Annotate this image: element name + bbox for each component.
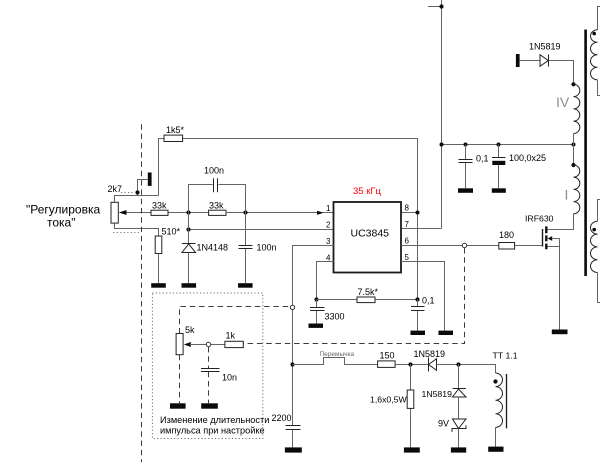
potentiometer 5k xyxy=(176,334,183,355)
svg-text:0,1: 0,1 xyxy=(476,154,489,164)
node: bus-rail junction xyxy=(440,143,444,147)
transistor IRF630 gate bar xyxy=(542,229,544,247)
capacitor 0,1 on bus xyxy=(465,145,467,189)
wire: pin6 row to gate xyxy=(401,245,543,247)
ground: below 3300 xyxy=(309,324,324,328)
node: pin8 junction xyxy=(416,211,420,215)
ground: below 1N4148 xyxy=(182,283,197,288)
node: zener branch junction xyxy=(456,362,460,366)
diode 1N5819 top xyxy=(548,55,550,67)
arrow: IRF630 substrate xyxy=(548,236,553,241)
wire: pin4 to 7.5k node xyxy=(317,262,334,300)
ground: 10n xyxy=(201,403,218,408)
arrow into pin 1 xyxy=(317,211,324,215)
wire: 150 to diode xyxy=(395,364,428,366)
wire: supply stub left xyxy=(428,6,442,8)
resistor 1,6x0,5W xyxy=(410,365,412,448)
capacitor 3300 xyxy=(316,300,318,324)
wire: 1k5 right lead xyxy=(183,138,418,140)
svg-text:510*: 510* xyxy=(162,227,181,237)
svg-text:1: 1 xyxy=(326,204,331,213)
svg-text:IV: IV xyxy=(556,94,570,110)
ground: IRF630 source xyxy=(552,330,568,335)
wire: dotted segment below pot xyxy=(113,232,139,234)
wire: dashed adjust link xyxy=(243,248,464,344)
svg-text:0,1: 0,1 xyxy=(422,296,435,306)
core: TT 1.1 xyxy=(506,374,508,429)
wire: 1N4148 to ground xyxy=(188,253,190,284)
wire: jumper bump Перемычка xyxy=(293,358,378,365)
dotted box: tuning note xyxy=(152,293,262,439)
wire: diode to winding IV xyxy=(549,61,574,85)
wire: pin5 to ground xyxy=(401,262,445,331)
wire: 1k5 left lead down to pot top row xyxy=(159,139,165,196)
wire: Vref vertical x418 from 1k5 to 7.5k node xyxy=(417,139,419,300)
svg-text:180: 180 xyxy=(499,230,514,240)
potentiometer 2k7 xyxy=(111,202,118,223)
winding II secondary top xyxy=(598,7,600,30)
svg-text:1N5819: 1N5819 xyxy=(414,349,446,359)
wire: between diodes xyxy=(458,397,460,419)
wire: 5k bottom dashed to ground xyxy=(179,355,181,404)
winding IV of transformer xyxy=(571,82,575,86)
ground: below 100n xyxy=(238,283,253,288)
svg-text:9V: 9V xyxy=(438,419,449,429)
ground: bus 100,0 xyxy=(492,188,506,193)
node: bus winding junction xyxy=(572,143,576,147)
capacitor 100n second xyxy=(245,213,247,284)
winding III secondary bottom xyxy=(598,200,600,222)
svg-text:33k: 33k xyxy=(152,201,167,211)
dashed tuning boundary line xyxy=(141,124,143,462)
svg-text:3: 3 xyxy=(326,237,331,246)
resistor 1k5* xyxy=(164,135,183,141)
wire: pin7 to supply rail xyxy=(401,228,442,230)
svg-text:100n: 100n xyxy=(257,243,277,253)
svg-text:IRF630: IRF630 xyxy=(525,213,554,223)
wire: 7.5k row xyxy=(317,299,418,301)
svg-text:Изменение длительности: Изменение длительности xyxy=(160,415,269,425)
ground: 1,6x0,5W xyxy=(404,447,420,452)
svg-text:I: I xyxy=(565,187,569,203)
svg-text:1k5*: 1k5* xyxy=(166,125,185,135)
svg-text:1N5819: 1N5819 xyxy=(422,389,453,399)
wiper arrow of 5k xyxy=(184,342,191,347)
wire: 5k top dashed to pin3 rail xyxy=(180,307,291,334)
wire: 510 lead to ground xyxy=(158,254,160,284)
svg-text:UC3845: UC3845 xyxy=(351,228,390,240)
wire: pin2 row xyxy=(189,229,334,231)
capacitor 0,1 at pin4 node xyxy=(417,300,419,331)
svg-text:2200: 2200 xyxy=(272,413,292,423)
node: open circle on pin6 wire xyxy=(462,243,466,247)
wire: zener to ground xyxy=(458,429,460,448)
resistor 1k xyxy=(225,341,243,347)
resistor 180 xyxy=(499,243,515,250)
svg-text:Перемычка: Перемычка xyxy=(320,351,355,358)
svg-text:5k: 5k xyxy=(185,325,195,335)
svg-text:2k7: 2k7 xyxy=(108,184,123,194)
node: 33k-1 junction xyxy=(186,210,190,214)
svg-text:"Регулировка: "Регулировка xyxy=(26,203,100,217)
resistor 33k second xyxy=(209,210,226,215)
capacitor 100,0x25 electrolytic xyxy=(498,145,500,189)
svg-text:тока": тока" xyxy=(47,216,75,230)
ground: zener xyxy=(451,447,466,452)
svg-text:100,0х25: 100,0х25 xyxy=(509,153,546,163)
wire: circle to 1k xyxy=(211,344,225,346)
wire: 2200 to ground xyxy=(292,430,294,448)
svg-text:6: 6 xyxy=(405,237,410,246)
capacitor 2200 xyxy=(286,426,301,430)
svg-text:1N5819: 1N5819 xyxy=(529,42,561,52)
connector bar at 1N5819 xyxy=(516,54,520,67)
wire: vertical to 1N4148 xyxy=(188,213,190,244)
node: pin4/7.5k junction xyxy=(314,297,318,301)
node: 150/1,6 junction xyxy=(408,362,412,366)
node: 33k-2 junction xyxy=(243,210,247,214)
wire: dotted segment at 2k7 xyxy=(121,192,135,194)
node: 2k7 dotted junction xyxy=(135,190,139,194)
svg-text:ТТ 1.1: ТТ 1.1 xyxy=(493,351,518,361)
wire: 33k-2 to pin1 xyxy=(226,212,317,214)
svg-text:8: 8 xyxy=(405,204,410,213)
diode zener 9V xyxy=(453,419,467,429)
transformer core xyxy=(584,30,587,277)
ground: TT 1.1 xyxy=(488,447,503,452)
wire: supply bus to transformer xyxy=(442,144,574,146)
capacitor 10n dashed leads xyxy=(208,347,210,403)
wire: drain to winding I xyxy=(547,214,573,230)
wire: diode to TT winding xyxy=(437,365,496,374)
transistor IRF630 channel segments xyxy=(545,226,547,249)
connector bar near 1k5 xyxy=(148,173,152,186)
svg-text:33k: 33k xyxy=(209,201,224,211)
ground: below 0,1 xyxy=(411,331,426,335)
ground: below 510 xyxy=(151,283,166,288)
wire: +U supply rail vertical xyxy=(441,0,443,229)
svg-text:1,6х0,5W: 1,6х0,5W xyxy=(370,395,407,405)
node: supply junction xyxy=(439,4,443,8)
diode 1N5819 vertical xyxy=(458,365,460,389)
wire: source to ground xyxy=(547,239,559,330)
node: open circle on pin3 rail xyxy=(290,305,294,309)
ground: 2200 xyxy=(285,447,302,452)
node: pin2 row junction xyxy=(186,227,190,231)
svg-text:4: 4 xyxy=(326,253,331,262)
diode 1N4148 xyxy=(182,243,196,245)
node: bus cap 0,1 junction xyxy=(464,143,468,147)
resistor 33k first xyxy=(151,210,168,215)
diode 1N5819 row (cathode left) xyxy=(428,358,430,372)
wire: TT to ground xyxy=(495,427,497,446)
svg-text:35 кГц: 35 кГц xyxy=(353,186,382,197)
svg-text:7: 7 xyxy=(405,220,410,229)
svg-text:импульса при настройке: импульса при настройке xyxy=(160,426,265,436)
svg-text:7.5k*: 7.5k* xyxy=(358,287,379,297)
svg-text:1N4148: 1N4148 xyxy=(197,243,229,253)
wire: connector bar to 2k7 node xyxy=(138,180,148,196)
svg-text:10n: 10n xyxy=(222,373,237,383)
ground: bus 0,1 xyxy=(458,188,473,193)
wire: pot top row xyxy=(115,196,159,203)
ground: pin5 xyxy=(439,331,454,335)
svg-text:5: 5 xyxy=(405,253,410,262)
node: jumper row junction on pin3 rail xyxy=(290,362,294,366)
resistor 510* xyxy=(155,236,162,254)
resistor 150 xyxy=(378,361,396,368)
wire: pin3 rail down to 2200 xyxy=(293,246,334,426)
svg-text:1k: 1k xyxy=(226,331,236,341)
wire: pot bottom to 510 xyxy=(115,223,159,236)
resistor 7.5k* xyxy=(357,297,375,303)
svg-text:3300: 3300 xyxy=(325,312,345,322)
svg-text:2: 2 xyxy=(326,221,331,230)
wiper arrow of 2k7 pot xyxy=(126,212,151,214)
node: open circle at 1k/10n xyxy=(206,342,210,346)
svg-text:100n: 100n xyxy=(204,166,224,176)
node: 7.5k right junction xyxy=(415,297,419,301)
wire: bar to diode xyxy=(520,60,540,62)
wire: wiper row to 33k xyxy=(168,212,209,214)
wire: pin8 stub xyxy=(401,212,418,214)
IC UC3845 xyxy=(334,202,402,273)
winding I of transformer xyxy=(573,145,575,166)
svg-text:150: 150 xyxy=(380,351,395,361)
node: bus cap 100,0 junction xyxy=(497,143,501,147)
ground: 5k xyxy=(170,403,186,408)
capacitor 100n feedback bridge xyxy=(189,185,246,213)
